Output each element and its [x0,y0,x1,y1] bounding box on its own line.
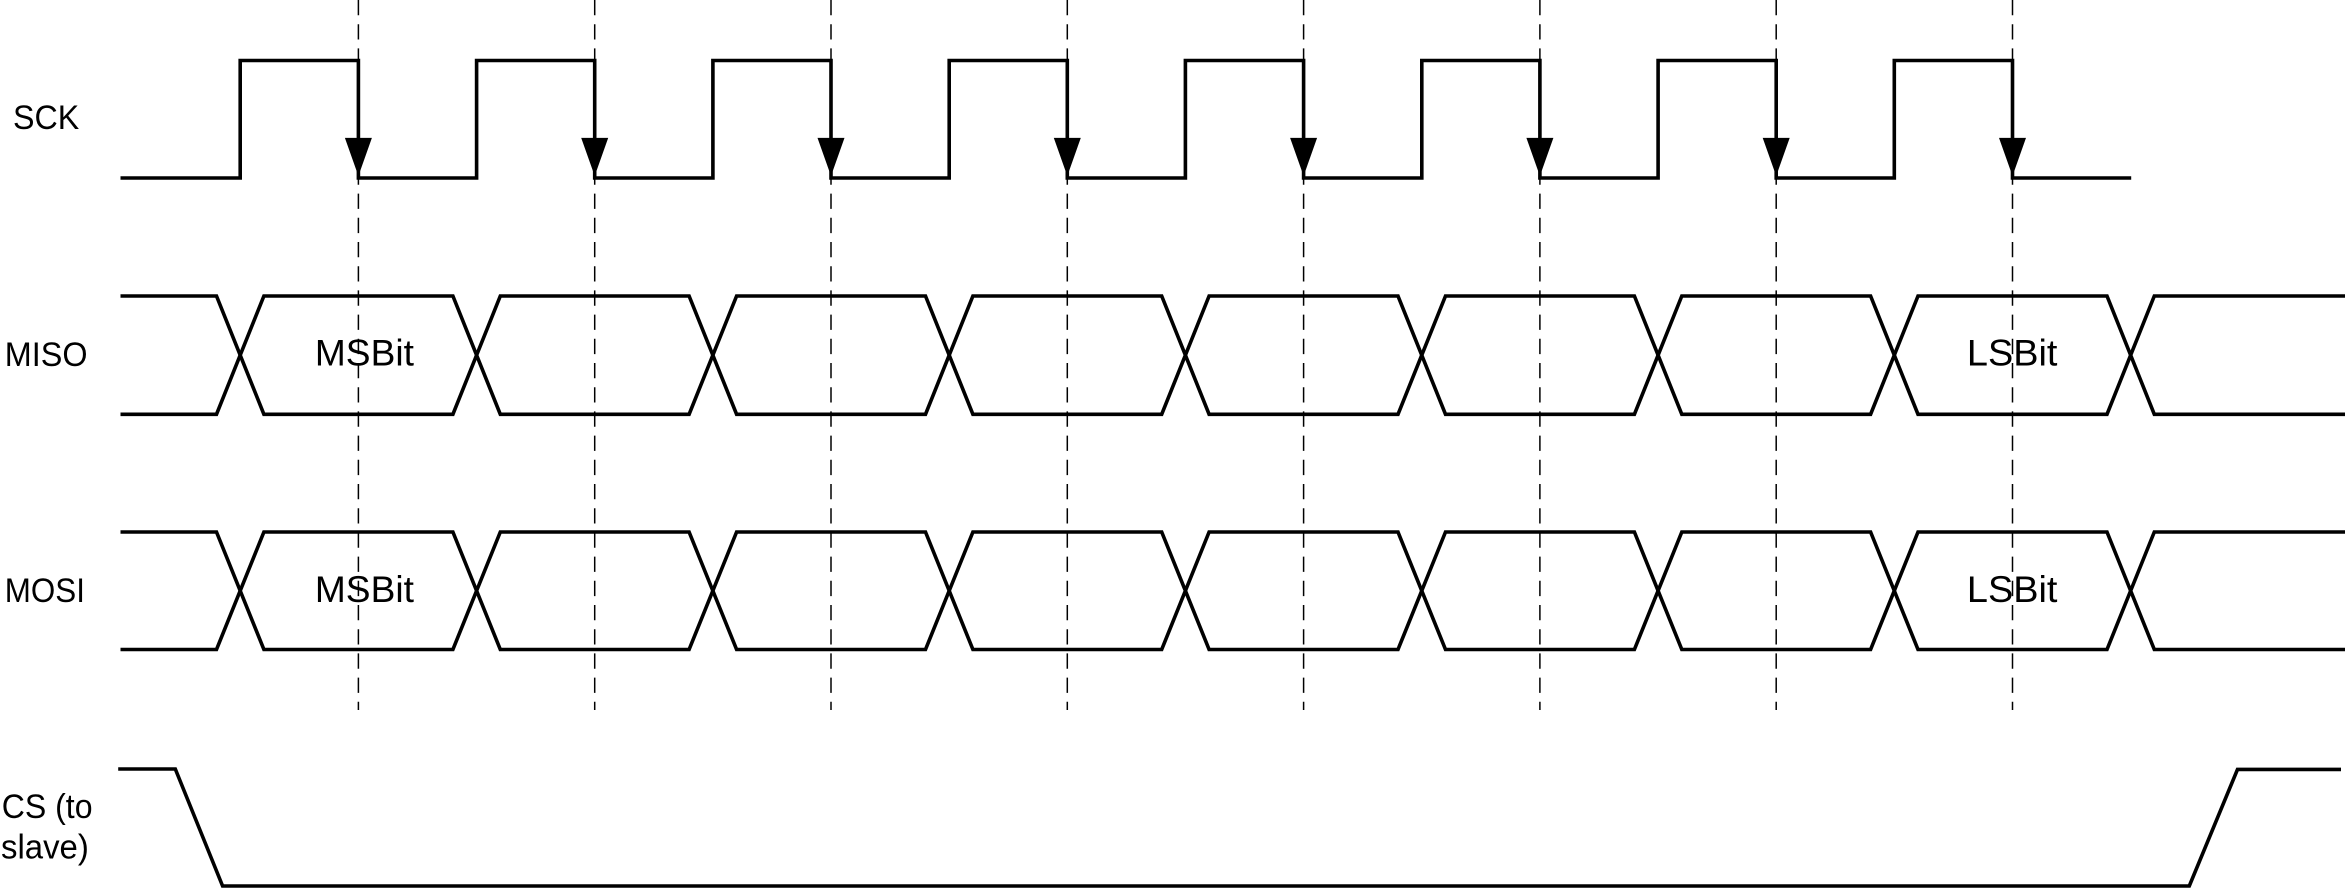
falling-edge arrowhead 2 [581,138,608,176]
sampling edge dashed line 7 [1775,0,1777,710]
MISO bus waveform rail A [121,296,2345,414]
svg-text:SCK: SCK [13,99,79,137]
falling-edge arrowhead 3 [818,138,845,176]
svg-text:MOSI: MOSI [5,572,85,610]
MOSI bus waveform rail A [121,532,2345,650]
sampling edge dashed line 3 [830,0,832,710]
sampling edge dashed line 2 [594,0,596,710]
svg-text:CS (to: CS (to [2,788,93,826]
falling-edge arrowhead 4 [1054,138,1081,176]
falling-edge arrowhead 6 [1526,138,1553,176]
svg-text:MSBit: MSBit [315,568,415,610]
falling-edge arrowhead 5 [1290,138,1317,176]
MISO bus waveform rail B [121,296,2345,414]
svg-text:LSBit: LSBit [1967,332,2058,374]
falling-edge arrowhead 8 [1999,138,2026,176]
sampling edge dashed line 5 [1303,0,1305,710]
sampling edge dashed line 6 [1539,0,1541,710]
sampling edge dashed line 1 [357,0,359,710]
svg-text:slave): slave) [1,828,89,866]
svg-text:MISO: MISO [5,336,88,374]
svg-text:MSBit: MSBit [315,332,415,374]
falling-edge arrowhead 1 [345,138,372,176]
CS chip-select waveform [118,769,2341,886]
sampling edge dashed line 4 [1066,0,1068,710]
svg-text:LSBit: LSBit [1967,568,2058,610]
MOSI bus waveform rail B [121,532,2345,650]
SCK clock waveform [121,61,2132,179]
sampling edge dashed line 8 [2012,0,2014,710]
falling-edge arrowhead 7 [1763,138,1790,176]
